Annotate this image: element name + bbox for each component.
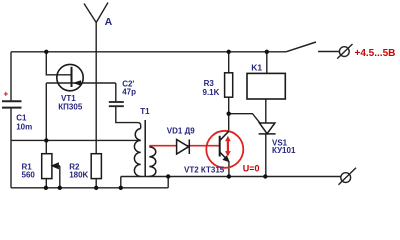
wire R1 wiper down [59, 166, 61, 188]
resistor R2 [91, 154, 101, 179]
wire antenna vertical [95, 23, 97, 154]
node top rail / K1 [265, 50, 269, 54]
svg-text:VT2 КТ315: VT2 КТ315 [184, 165, 225, 174]
T1 core [144, 120, 146, 176]
node rail / R1 wiper [58, 186, 62, 190]
VT2 red highlight circle [206, 131, 243, 168]
switch SA1 [286, 42, 316, 52]
wire top rail [11, 51, 286, 53]
transformer T1 [134, 120, 155, 177]
wire R3 bottom / VT2 collector riser [228, 97, 230, 131]
wire K1 top [266, 52, 268, 74]
wire VT1 channel lead [46, 82, 116, 84]
svg-text:47p: 47p [122, 88, 136, 97]
transistor VT1 [57, 64, 83, 90]
wire bus-to-rail connector [120, 177, 122, 188]
node rail / R1 bottom [44, 186, 48, 190]
wire left rail upper [10, 52, 12, 102]
wire R1 bottom [45, 179, 47, 188]
svg-text:+4.5...5В: +4.5...5В [355, 48, 396, 59]
node rail / VS1 cathode [263, 174, 267, 178]
svg-text:10m: 10m [16, 123, 32, 132]
node top rail / VT1 gate [44, 50, 48, 54]
node collector / VS1 gate [227, 112, 231, 116]
node rail / bus connector [119, 186, 123, 190]
node rail / VT2 emitter [227, 174, 231, 178]
node tap / R1 / VT1 source [44, 138, 48, 142]
node top rail / R3 [227, 50, 231, 54]
wire R1 top [45, 140, 47, 153]
capacitor C1 [2, 101, 22, 107]
VT1 arrow [73, 80, 81, 86]
svg-text:9.1K: 9.1K [203, 88, 220, 97]
wire VT1 gate [46, 52, 71, 75]
wire C2 bottom to T1 primary [116, 107, 141, 129]
wire R2 bottom [95, 179, 97, 188]
svg-text:C1: C1 [16, 114, 27, 123]
VT2 red voltage arrow [225, 136, 231, 157]
svg-text:R3: R3 [204, 79, 215, 88]
svg-text:180K: 180K [69, 170, 88, 179]
svg-text:+: + [4, 90, 9, 99]
node bus / step [166, 174, 170, 178]
svg-text:560: 560 [22, 170, 36, 179]
antenna [84, 3, 108, 23]
thyristor VS1 [259, 123, 276, 134]
svg-text:U=0: U=0 [243, 164, 260, 174]
wire VS1 cathode [265, 134, 267, 177]
VT2 base bar [219, 136, 221, 157]
wire VT1 source down [45, 83, 47, 140]
wire red net T1 secondary to VT2 base [149, 145, 219, 147]
svg-text:VD1 Д9: VD1 Д9 [167, 127, 195, 136]
svg-text:A: A [105, 16, 113, 28]
svg-text:КП305: КП305 [58, 103, 83, 112]
wire VS1 gate [229, 114, 260, 123]
wire left rail lower [10, 108, 12, 188]
wire tap [11, 139, 141, 141]
capacitor C2' [109, 102, 124, 106]
node rail / R2 bottom [94, 186, 98, 190]
diode VD1 [177, 140, 190, 155]
wire bottom left rail [11, 187, 168, 189]
terminal plus [337, 44, 352, 59]
relay K1 [247, 73, 285, 99]
resistor R1 [42, 154, 52, 179]
svg-text:КУ101: КУ101 [272, 146, 296, 155]
VT2 emitter [220, 152, 228, 160]
resistor R3 [225, 73, 233, 97]
wire step connector [167, 177, 169, 188]
svg-text:K1: K1 [251, 62, 262, 72]
T1 primary winding [134, 129, 140, 177]
T1 secondary winding [149, 147, 156, 177]
VT2 collector [220, 131, 229, 140]
wire K1 bottom / VS1 anode [265, 99, 267, 123]
VT2 emitter arrow [222, 155, 230, 162]
transistor VT2 [206, 131, 243, 168]
wire switch to terminal [318, 51, 339, 53]
R1 wiper arrow [52, 163, 60, 168]
wire C2 top [115, 83, 117, 102]
wire VT2 emitter down [228, 162, 230, 177]
wire T1 primary bottom [140, 175, 142, 177]
svg-text:T1: T1 [140, 107, 150, 116]
wire R3 top [228, 52, 230, 73]
terminal minus [339, 168, 357, 185]
wire bottom right rail [121, 176, 341, 178]
